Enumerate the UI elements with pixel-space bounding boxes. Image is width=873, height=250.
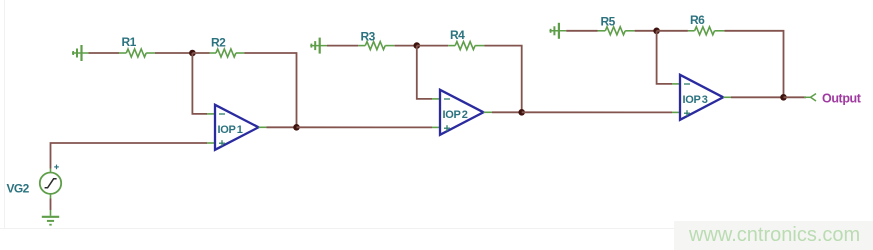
- wire (R6 to output corner): [724, 31, 783, 98]
- pin stub VG2 top: [50, 169, 52, 173]
- junction U1 output node: [293, 124, 300, 131]
- svg-text:IOP1: IOP1: [218, 124, 243, 136]
- wire (feedback to U1 inverting input): [192, 53, 207, 114]
- wire: [657, 30, 688, 32]
- resistor R5: [598, 27, 635, 35]
- VG2 plus mark: [54, 165, 59, 170]
- wire (U2 out to U3 non-inverting input): [522, 111, 672, 113]
- wire (feedback to U3 inverting input): [657, 31, 672, 84]
- svg-text:R1: R1: [122, 35, 137, 49]
- wire (VG2 to U1 non-inverting input): [51, 143, 208, 169]
- label R1: [122, 35, 137, 49]
- resistor R4: [448, 42, 484, 50]
- pin stub U3 output: [723, 96, 731, 98]
- wire: [635, 30, 657, 32]
- ground (below VG2): [42, 217, 59, 225]
- label R4: [450, 28, 465, 42]
- voltage source VG2: [40, 173, 61, 194]
- wire: [327, 45, 358, 47]
- wire: [784, 96, 807, 98]
- wire (feedback to U2 inverting input): [417, 46, 432, 99]
- label R6: [690, 13, 705, 27]
- wire: [89, 52, 120, 54]
- svg-text:Output: Output: [822, 91, 862, 105]
- wire (R4 to U2 output corner): [485, 46, 522, 113]
- resistor R1: [119, 49, 155, 57]
- resistor R3: [358, 42, 394, 50]
- wire: [395, 45, 417, 47]
- watermark band: [674, 221, 873, 250]
- resistor R6: [688, 27, 725, 35]
- wire: [50, 199, 52, 211]
- wire: [492, 111, 522, 113]
- pin stub VG2 bottom: [50, 194, 52, 199]
- label R2: [211, 35, 226, 49]
- wire: [155, 52, 192, 54]
- junction output node: [780, 94, 787, 101]
- pin stub U2 non-inverting: [432, 126, 440, 128]
- op-amp U2 (IOP2): [440, 90, 484, 135]
- canvas border: [0, 0, 674, 229]
- label Output: [822, 91, 862, 105]
- output terminal: [804, 94, 816, 101]
- svg-text:VG2: VG2: [7, 182, 30, 196]
- svg-text:R3: R3: [361, 30, 376, 44]
- ground (stage 1 input): [72, 45, 89, 61]
- label R5: [601, 15, 616, 29]
- pin stub U1 inverting: [207, 113, 215, 115]
- pin stub U2 output: [484, 111, 493, 113]
- wire: [267, 126, 297, 128]
- wire: [566, 30, 597, 32]
- ground (stage 2 input): [310, 38, 327, 54]
- junction A (R1/R2 node): [189, 50, 196, 57]
- svg-text:IOP3: IOP3: [683, 94, 708, 106]
- svg-text:IOP2: IOP2: [443, 109, 468, 121]
- svg-text:R5: R5: [601, 15, 616, 29]
- resistor R2: [210, 49, 245, 57]
- wire (R2 to U1 output corner): [245, 53, 297, 127]
- op-amp U3 (IOP3): [680, 75, 723, 120]
- label VG2: [7, 182, 30, 196]
- pin stub U2 inverting: [432, 98, 440, 100]
- junction U2 output node: [518, 109, 525, 116]
- pin stub U1 output: [259, 126, 267, 128]
- wire (U1 out to U2 non-inverting input): [297, 126, 433, 128]
- label R3: [361, 30, 376, 44]
- watermark: [688, 224, 860, 246]
- pin stub U3 inverting: [672, 83, 680, 85]
- wire (green lead into ground): [50, 210, 52, 216]
- junction C (R5/R6 node): [653, 28, 660, 35]
- pin stub U3 non-inverting: [672, 111, 680, 113]
- junction B (R3/R4 node): [414, 42, 421, 49]
- wire: [731, 96, 784, 98]
- svg-text:R2: R2: [211, 35, 226, 49]
- ground (stage 3 input): [549, 23, 566, 39]
- op-amp U1 (IOP1): [215, 105, 259, 150]
- svg-text:R6: R6: [690, 13, 705, 27]
- pin stub U1 non-inverting: [207, 142, 215, 144]
- wire: [417, 45, 448, 47]
- wire: [192, 52, 209, 54]
- svg-text:R4: R4: [450, 28, 465, 42]
- svg-text:www.cntronics.com: www.cntronics.com: [688, 224, 860, 246]
